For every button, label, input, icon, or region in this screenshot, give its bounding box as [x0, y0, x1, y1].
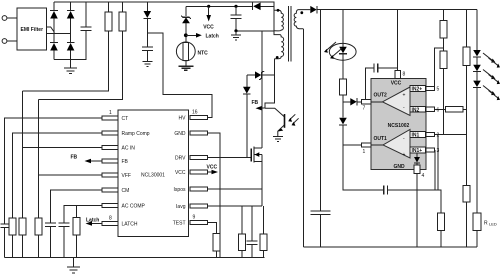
svg-text:VCC: VCC — [175, 170, 186, 176]
U2 pin 1 OUT1 — [362, 136, 388, 155]
capacitor C cm — [45, 223, 56, 258]
svg-text:TEST: TEST — [173, 221, 186, 227]
svg-text:Latch: Latch — [206, 33, 219, 39]
resistor R div1 — [440, 21, 447, 52]
zener Z1 latch — [181, 6, 191, 42]
FB net arrow left — [71, 155, 103, 164]
optocoupler LED — [329, 10, 356, 79]
resistor R in1 — [438, 213, 445, 247]
U2 pin 5 IN2+ — [410, 86, 440, 93]
svg-text:6: 6 — [437, 107, 440, 113]
wire VCC rail B — [186, 5, 274, 7]
resistor R opto — [340, 79, 347, 102]
wire RampComp — [13, 133, 103, 218]
wire AC IN — [23, 91, 103, 218]
svg-text:IN1+: IN1+ — [412, 148, 423, 154]
wire Iavg — [208, 205, 262, 207]
resistor R acin — [19, 218, 26, 258]
U1 pin CM — [102, 188, 129, 194]
U2 pin 6 IN2 — [410, 106, 440, 113]
wire CM — [51, 190, 103, 223]
U1 pin GND — [174, 131, 207, 137]
resistor R sense chain bottom — [463, 186, 470, 247]
wire sense node drop R1s — [241, 206, 243, 234]
LED light arrows — [483, 53, 500, 100]
svg-text:FB: FB — [122, 159, 129, 165]
resistor R2 top divider — [39, 2, 126, 100]
capacitor C vcc — [231, 5, 242, 31]
U2 op-amp A1 — [371, 130, 410, 159]
wire bridge bottom rail — [54, 31, 86, 60]
wire pin2 line — [435, 134, 467, 136]
capacitor C vcc2 — [366, 64, 398, 102]
Latch net arrow — [186, 33, 219, 39]
U1 pin Iavg — [176, 204, 208, 210]
ground vcc cap — [231, 31, 241, 40]
wire GND pin to rail — [208, 133, 220, 258]
ground primary rail — [67, 258, 80, 273]
EMI filter block — [17, 8, 47, 50]
wire top rail A — [54, 2, 274, 31]
resistor R test — [213, 233, 220, 257]
resistor R vff — [35, 218, 42, 258]
wire ground rail primary — [5, 257, 265, 259]
diode D6 vcc rail — [253, 3, 261, 11]
node latch dot — [184, 33, 188, 37]
resistor R sense chain top — [463, 47, 470, 186]
LED D11 — [473, 50, 481, 65]
capacitor C HV — [142, 47, 153, 61]
capacitor C out — [311, 211, 331, 247]
resistor R1 top divider — [23, 2, 113, 91]
wire integrator line — [343, 145, 384, 190]
diode D10 to OUT1 — [339, 102, 361, 145]
wire sense chain column — [466, 10, 468, 47]
svg-text:GND: GND — [393, 164, 405, 170]
bridge diode D3 — [67, 10, 75, 18]
wire VCC pin8 column — [397, 10, 399, 70]
svg-text:1: 1 — [363, 149, 366, 155]
wire divider column — [443, 10, 445, 20]
ground HV cap — [142, 62, 152, 67]
input terminal J2 — [2, 39, 7, 44]
wire sense node drop R2s — [262, 206, 264, 234]
resistor R sense1 — [239, 234, 246, 258]
optocoupler light arrows — [324, 42, 342, 59]
svg-text:Iavg: Iavg — [176, 204, 186, 210]
op-amp U2 NCS1002 — [371, 79, 426, 170]
ground phototransistor — [273, 136, 283, 141]
NTC thermistor — [176, 42, 208, 66]
svg-text:LATCH: LATCH — [122, 222, 138, 228]
wire EMI out1 to bridge left — [47, 27, 55, 33]
transistor Q1 MOSFET — [251, 147, 261, 163]
LED D12 — [473, 65, 481, 81]
U1 pin 16 HV — [179, 110, 208, 122]
capacitor C integrator — [384, 186, 441, 214]
VCC net arrow down — [203, 5, 214, 31]
zener Z2 clamp — [247, 71, 274, 80]
wire source — [261, 155, 263, 206]
U1 pin FB — [102, 159, 129, 165]
transformer T1 core — [288, 6, 291, 62]
wire AC COMP — [64, 206, 102, 224]
wire DRV to gate — [208, 157, 252, 159]
svg-text:8: 8 — [403, 72, 406, 78]
U2 pin 3 IN1+ — [410, 147, 440, 154]
ground NTC — [179, 66, 194, 70]
wire Ispos — [208, 188, 262, 190]
svg-text:GND: GND — [174, 131, 186, 137]
svg-text:FB: FB — [252, 100, 259, 106]
wire pin2 drop — [437, 135, 439, 191]
wire drain — [261, 31, 263, 148]
transformer T1 secondary winding — [294, 10, 310, 247]
svg-text:16: 16 — [192, 110, 198, 116]
svg-text:VCC: VCC — [203, 24, 214, 30]
svg-text:+: + — [403, 152, 406, 158]
svg-text:7: 7 — [363, 106, 366, 112]
svg-text:CT: CT — [122, 116, 129, 122]
wire output cap column — [320, 10, 322, 211]
Latch net arrow left — [86, 218, 103, 226]
wire LED string column — [476, 10, 478, 50]
U1 pin 9 TEST — [173, 215, 208, 227]
bridge left column wire — [53, 2, 55, 60]
svg-text:4: 4 — [422, 173, 425, 179]
svg-text:HV: HV — [179, 116, 187, 122]
wire winding tap — [236, 30, 274, 32]
FB net arrow primary — [252, 100, 266, 111]
U2 pin 4 GND — [393, 164, 424, 247]
svg-text:Ispos: Ispos — [174, 187, 186, 193]
wire — [7, 40, 17, 42]
svg-text:CM: CM — [122, 188, 130, 194]
diode D9 to OUT2 — [343, 98, 362, 105]
U2 pin 8 VCC — [391, 70, 406, 86]
wire pin5 tap — [435, 48, 444, 89]
resistor R accomp — [73, 218, 80, 258]
capacitor C bulk — [81, 2, 92, 31]
bridge right column wire — [70, 2, 72, 68]
U1 pin 8 LATCH — [102, 216, 138, 228]
bridge diode D1 — [50, 10, 58, 18]
svg-text:FB: FB — [71, 155, 78, 161]
resistor R in2 — [446, 107, 467, 113]
U2 pin 2 IN1 — [410, 132, 440, 139]
wire EMI out2 to bridge right — [47, 33, 71, 35]
svg-text:IN1: IN1 — [412, 133, 420, 139]
svg-text:1: 1 — [109, 110, 112, 116]
VCC net arrow right — [207, 164, 219, 174]
resistor R div2 — [440, 51, 447, 135]
svg-text:Ramp Comp: Ramp Comp — [122, 131, 150, 137]
svg-text:NCL30001: NCL30001 — [141, 173, 165, 179]
wire ground rail secondary — [304, 246, 478, 248]
U1 pin VCC — [175, 170, 208, 176]
svg-text:VCC: VCC — [391, 81, 402, 87]
wire CT to cap — [5, 118, 103, 224]
U2 pin 7 OUT2 — [362, 93, 388, 112]
diode D8 clamp — [243, 75, 251, 158]
svg-text:2: 2 — [437, 133, 440, 139]
U1 pin VFF — [102, 173, 131, 179]
capacitor C CT — [1, 224, 9, 258]
bridge diode D2 — [50, 43, 58, 51]
svg-text:OUT1: OUT1 — [374, 136, 388, 142]
svg-text:8: 8 — [109, 216, 112, 222]
resistor R LED — [473, 213, 497, 247]
U2 internal diode — [414, 150, 420, 170]
svg-text:3: 3 — [437, 148, 440, 154]
capacitor C sense — [247, 241, 258, 258]
wire aux tap down — [265, 59, 274, 108]
svg-text:AC COMP: AC COMP — [122, 204, 146, 210]
svg-text:EMI Filter: EMI Filter — [21, 27, 44, 33]
U1 pin Ramp Comp — [102, 131, 150, 137]
wire pin6 line — [435, 108, 446, 110]
wire TEST — [208, 223, 217, 234]
input terminal J1 — [2, 16, 7, 21]
svg-text:NTC: NTC — [198, 50, 209, 56]
svg-text:Latch: Latch — [86, 218, 99, 224]
resistor R sense2 — [260, 234, 267, 258]
transformer T1 primary winding — [274, 9, 283, 31]
phototransistor light arrows — [288, 114, 298, 125]
svg-text:DRV: DRV — [175, 156, 186, 162]
U1 pin AC IN — [102, 145, 135, 151]
resistor R ramp — [9, 218, 16, 258]
svg-text:9: 9 — [193, 215, 196, 221]
diode D5 HV feed — [144, 2, 152, 47]
svg-text:VFF: VFF — [122, 173, 131, 179]
svg-text:5: 5 — [437, 87, 440, 93]
wire sense node drop C — [251, 206, 253, 241]
svg-text:VCC: VCC — [207, 164, 218, 170]
wire pin3 drop — [434, 150, 436, 190]
op-amp controller U1 NCL30001 — [118, 110, 188, 237]
wire AC COMP branch — [75, 206, 77, 218]
svg-text:LED: LED — [489, 222, 497, 227]
wire HV feed to pin16 — [147, 33, 212, 118]
svg-text:+: + — [403, 93, 406, 99]
svg-text:NCS1002: NCS1002 — [388, 123, 410, 129]
wire VFF — [39, 100, 103, 218]
node vcc cap return dot — [234, 29, 237, 32]
bridge diode D4 — [67, 43, 75, 51]
U1 pin Ispos — [174, 187, 208, 193]
phototransistor Q2 — [265, 108, 285, 136]
diode D7 output rectifier — [310, 6, 477, 13]
U1 pin DRV — [175, 155, 208, 161]
svg-text:OUT2: OUT2 — [374, 93, 388, 99]
capacitor C accomp — [59, 223, 70, 258]
U1 pin AC COMP — [102, 203, 146, 209]
transformer T1 aux winding — [274, 31, 284, 59]
svg-text:R: R — [484, 221, 488, 227]
svg-text:IN2: IN2 — [412, 107, 420, 113]
svg-text:IN2+: IN2+ — [412, 87, 423, 93]
U1 pin 1 CT — [102, 110, 128, 122]
LED D13 — [473, 81, 481, 213]
wire — [7, 17, 17, 19]
ground bridge minus — [64, 68, 77, 74]
svg-text:AC IN: AC IN — [122, 146, 136, 152]
U2 op-amp A2 — [371, 87, 410, 116]
